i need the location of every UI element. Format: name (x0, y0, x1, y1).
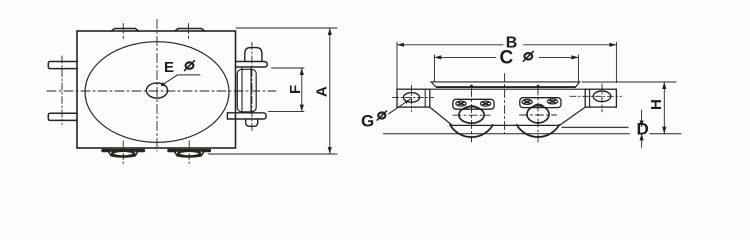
left lug crosshair (393, 86, 434, 112)
phi symbol for E (185, 61, 195, 71)
block2 bolt right (547, 99, 557, 104)
left lug lower (48, 113, 77, 120)
dim B line (397, 44, 616, 46)
tab centerline left (122, 24, 124, 39)
phi symbol for G (377, 111, 386, 120)
right lug inner edge (589, 89, 591, 107)
dim A arrows (328, 28, 332, 154)
body contour right slope (560, 107, 586, 125)
top tab right (175, 29, 205, 32)
dim C arrows (434, 55, 578, 59)
bottom flange (227, 113, 266, 119)
tab centerline right (188, 24, 190, 39)
block1 bolt right (481, 101, 491, 106)
dim A line (329, 28, 331, 154)
wheel1 horizontal centerline (453, 114, 490, 116)
top tab left (112, 29, 139, 32)
dim A top extension line (236, 27, 337, 29)
body contour left slope (430, 107, 453, 125)
body bottom edge lines right (562, 126, 628, 128)
foot left band (103, 149, 144, 152)
svg-text:F: F (287, 85, 304, 94)
block2 center arc (wheel top) (533, 104, 545, 107)
body outline (77, 31, 236, 148)
body bottom edge across wheels (452, 124, 559, 126)
leader G arrowhead (405, 99, 410, 104)
main wheel ellipse (85, 42, 229, 143)
dim C line (434, 56, 578, 58)
phi symbol for C (523, 51, 533, 61)
hub circle (146, 83, 167, 98)
top plate (431, 82, 580, 88)
horizontal centerline (47, 90, 276, 92)
vertical centerline (156, 20, 158, 152)
bearing block 1 (453, 99, 494, 109)
wheel1 hub (459, 107, 484, 124)
block1 center arc (wheel top) (466, 106, 478, 109)
dim H top extension (582, 81, 676, 83)
dim F top extension line (272, 67, 305, 69)
svg-text:A: A (314, 86, 331, 97)
rail line (384, 133, 682, 135)
right lug plate (585, 89, 616, 107)
wheel2 horizontal centerline (520, 114, 557, 116)
dim D line (641, 110, 643, 148)
bearing block 2 (520, 98, 561, 108)
wheel1 centerline (471, 89, 473, 143)
dim A bottom extension line (209, 153, 337, 155)
foot left trough (109, 152, 138, 157)
frame top edge (430, 88, 585, 90)
dim B arrows (397, 43, 616, 47)
wheel1 flange arc (450, 125, 493, 137)
svg-text:D: D (637, 120, 649, 139)
wheel2 hub (527, 106, 549, 123)
top bolt head (245, 48, 262, 62)
left lug inner edge (424, 90, 426, 108)
leader dot on hub (161, 83, 165, 87)
wheel2 flange arc (517, 125, 559, 137)
foot right band (169, 149, 210, 152)
dim H line (663, 82, 665, 134)
foot right roller ellipse (178, 151, 200, 157)
block1 bolt left (456, 101, 466, 106)
svg-text:H: H (648, 99, 665, 110)
right lug hole (593, 91, 611, 102)
side plate vertical lines (242, 68, 251, 113)
dim F bottom extension line (269, 111, 305, 113)
wheel2 centerline (537, 87, 539, 142)
top flange (236, 62, 267, 68)
leader line E (163, 75, 200, 85)
left lug upper (48, 62, 77, 69)
dim C extension lines (434, 55, 578, 82)
foot right trough (175, 152, 204, 157)
dim F arrows (300, 68, 304, 112)
dim B extension lines (397, 42, 616, 89)
side plate rounded body (237, 69, 256, 112)
top plate thick bottom edge (437, 86, 575, 88)
plate rivet dots (470, 85, 473, 88)
dim H arrows (662, 82, 666, 134)
foot left roller ellipse (112, 151, 134, 157)
foot left centerline (122, 141, 124, 164)
main centerline (504, 74, 506, 134)
dim D arrows (640, 121, 644, 141)
bottom bolt head (246, 119, 258, 126)
right lug crosshair (570, 84, 622, 112)
svg-text:G: G (361, 111, 374, 130)
foot right centerline (188, 141, 190, 164)
side plate centerline (251, 43, 253, 132)
left lug hole (403, 93, 419, 103)
left lug plate (397, 89, 430, 107)
leader line G (389, 99, 411, 114)
dim F line (301, 68, 303, 112)
left lug centerline (61, 56, 63, 125)
svg-text:E: E (164, 59, 174, 76)
block2 bolt left (522, 99, 532, 104)
svg-text:C: C (500, 47, 514, 68)
